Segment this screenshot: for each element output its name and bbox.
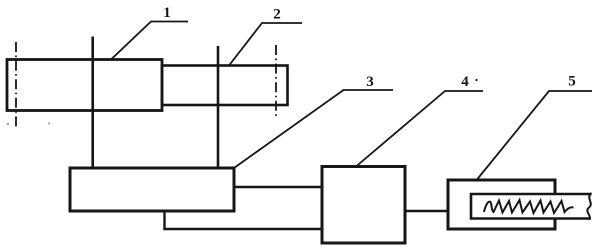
leader 1	[111, 22, 188, 60]
speck left low	[7, 123, 9, 125]
wire box3 bottom drop	[165, 211, 323, 229]
section line left (dash-dot)	[15, 42, 17, 128]
component 2 body: small shaft rectangle	[162, 66, 288, 106]
svg-text:1: 1	[163, 5, 171, 21]
svg-text:2: 2	[273, 7, 281, 23]
speck mid low	[48, 122, 50, 124]
support line A	[91, 37, 94, 169]
component 5 body: outer box	[448, 180, 555, 229]
wire box3 to box4 upper	[234, 186, 322, 188]
break line wavy end	[587, 193, 591, 220]
svg-text:4: 4	[461, 74, 469, 90]
component 4 body: square box	[322, 167, 405, 244]
leader 4	[356, 91, 483, 167]
svg-text:5: 5	[568, 74, 576, 90]
leader 5	[477, 91, 592, 180]
section line right (dash-dot)	[275, 45, 277, 117]
svg-text:3: 3	[366, 74, 374, 90]
spring zigzag symbol	[484, 200, 574, 213]
support line B	[217, 46, 220, 168]
component 1 body: large shaft rectangle	[7, 60, 162, 111]
leader 3	[234, 90, 393, 168]
component 5 inner sleeve with break end	[471, 194, 592, 219]
component 3 body: wide base box	[70, 168, 234, 211]
speck after 4	[475, 79, 477, 81]
wire box4 to box5	[405, 210, 448, 212]
leader 2	[229, 23, 302, 66]
